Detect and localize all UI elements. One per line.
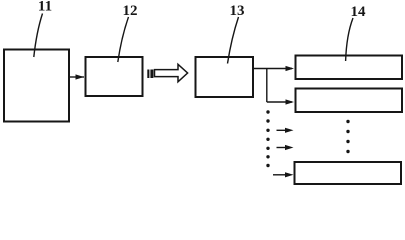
box 12 — [86, 57, 143, 96]
arrowhead into top box 14 — [286, 66, 295, 71]
box 13 — [196, 57, 254, 97]
small arrow lower — [277, 145, 294, 150]
top box 14 — [296, 56, 403, 80]
arrow into bottom box 14 — [273, 172, 294, 177]
vertical ellipsis dots left column — [266, 110, 269, 167]
svg-text:13: 13 — [230, 3, 245, 19]
vertical ellipsis dots right column — [346, 120, 349, 153]
leader line to box 12 — [118, 17, 129, 62]
small arrow upper — [277, 128, 294, 133]
svg-text:11: 11 — [38, 0, 52, 15]
block arrow shaft and open head — [155, 64, 188, 82]
leader line to top box 14 — [346, 18, 353, 61]
arrowhead into second box 14 — [286, 99, 295, 104]
leader line to box 11 — [34, 14, 43, 58]
arrowhead into box 12 — [76, 74, 85, 79]
second box 14 — [296, 89, 403, 113]
wire box11 to box12 — [69, 76, 84, 78]
wire to second box 14 — [267, 101, 292, 103]
junction vertical wire — [266, 69, 268, 103]
bottom box 14 — [295, 162, 402, 184]
box 11 — [4, 50, 69, 122]
svg-text:12: 12 — [123, 3, 138, 19]
wire box13 to top box 14 — [253, 68, 292, 70]
svg-text:14: 14 — [351, 4, 367, 20]
leader line to box 13 — [228, 17, 239, 64]
striped tail of block arrow — [147, 70, 153, 79]
